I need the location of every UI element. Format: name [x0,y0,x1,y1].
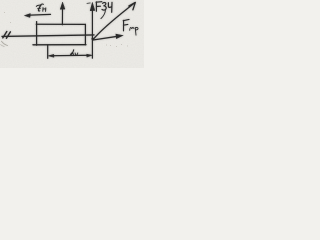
horizontal arrow Ftr (points right) [93,36,118,40]
dimension label lv [70,50,74,56]
label vn (script v with bar, subscript n) [36,4,43,6]
label F (of Ftr) [123,19,129,31]
dimension extension line left [47,45,49,58]
stray tick near F arrow tip [87,2,90,5]
diagonal resultant arrow [93,3,135,40]
scan speckles [4,12,128,47]
hatch marks at left end of rod [3,32,7,38]
label tr subscript [130,27,134,30]
faint stray pen squiggle lower-left [2,41,8,45]
label F (first letter of Fzu) [96,2,102,12]
soft scan halo duplicate [1,2,138,59]
up arrow on block [61,9,63,25]
block rectangle [36,22,38,46]
label z (second glyph) [102,3,106,11]
dimension line with arrowheads [50,54,90,57]
force diagram vertical axis / arrow F (up) [91,10,93,58]
velocity arrow vn (points left) [27,13,51,16]
wire rod line through block [2,35,94,37]
label u (third glyph) [108,2,112,12]
node junction of force arrows [91,38,94,41]
paper background [0,0,144,68]
